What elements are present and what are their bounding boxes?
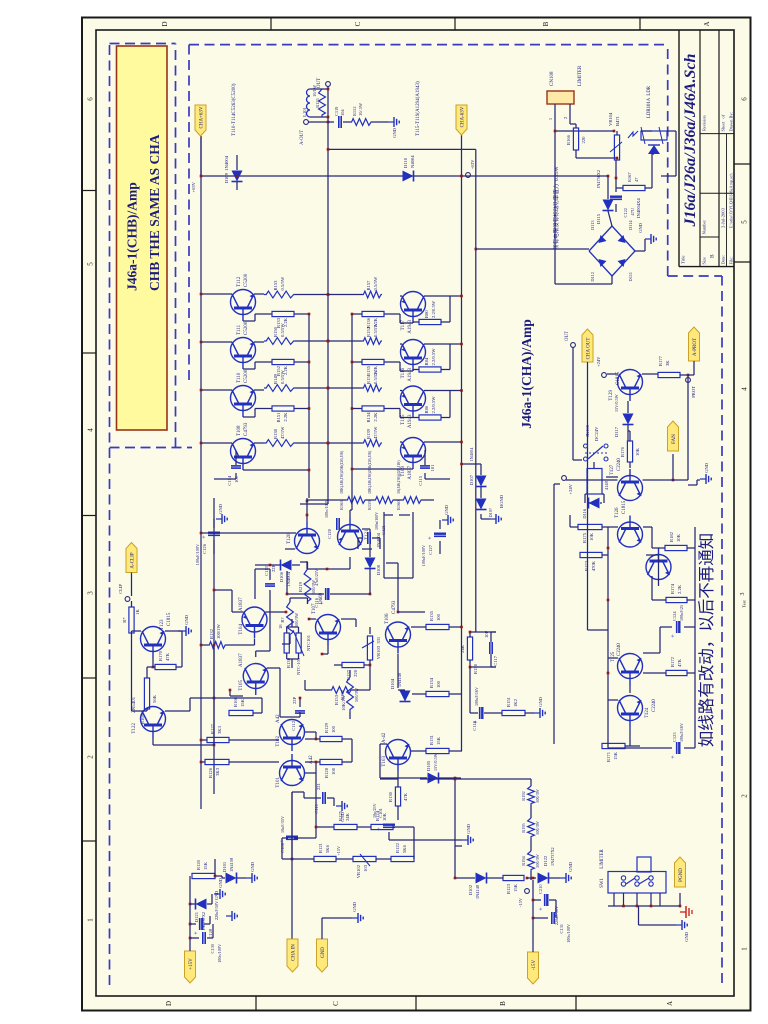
svg-text:R159: R159 bbox=[367, 500, 372, 510]
wire collector T110 bbox=[201, 389, 232, 391]
svg-text:C1815: C1815 bbox=[616, 371, 621, 385]
svg-text:PROT: PROT bbox=[691, 386, 696, 398]
svg-text:2.2K: 2.2K bbox=[373, 365, 378, 375]
bridge rectifier D111-D114 IN4004X4 bbox=[589, 251, 612, 276]
svg-text:2.2K: 2.2K bbox=[677, 584, 682, 594]
wire mid verticals bbox=[190, 697, 262, 699]
wire caps -15V gnd bbox=[549, 899, 556, 901]
capacitor C124 100uF/25V bbox=[676, 621, 678, 633]
svg-text:5: 5 bbox=[741, 220, 749, 224]
svg-text:500/3W: 500/3W bbox=[311, 579, 316, 594]
dashed CHA box notch left edge bbox=[668, 275, 722, 277]
wire base network T115 bbox=[400, 417, 413, 419]
svg-text:所有电限没有标动功率值力 0.25W: 所有电限没有标动功率值力 0.25W bbox=[552, 165, 560, 249]
wire A-PROT bbox=[693, 361, 695, 375]
svg-text:104: 104 bbox=[340, 109, 345, 116]
capacitor C116 47uF/25V bbox=[325, 588, 327, 600]
resistor R137 220 bbox=[342, 662, 364, 667]
resistor R121 5K6 bbox=[314, 856, 336, 861]
resistor R139 47/1W bbox=[362, 440, 382, 447]
wire y455 run bbox=[455, 777, 461, 779]
title block vertical dividers bbox=[700, 236, 719, 238]
svg-text:A1837: A1837 bbox=[408, 466, 413, 480]
svg-text:470K: 470K bbox=[591, 560, 596, 571]
svg-text:R121: R121 bbox=[318, 842, 323, 853]
resistor R130 47K bbox=[395, 787, 400, 806]
wire bias chain bbox=[307, 499, 346, 501]
wire feedback long bbox=[454, 778, 456, 878]
ground C118/R151 bbox=[484, 712, 502, 714]
wire PNP base rail bbox=[351, 313, 353, 498]
svg-text:D: D bbox=[165, 1001, 173, 1006]
resistor R172 47K bbox=[666, 670, 687, 675]
wire base T108 bbox=[243, 469, 309, 471]
resistor R192 500/3W bbox=[528, 786, 535, 805]
svg-text:C122: C122 bbox=[623, 208, 628, 218]
svg-text:-15V: -15V bbox=[518, 897, 523, 907]
svg-text:1K2: 1K2 bbox=[513, 698, 518, 707]
resistor R151b 1K2 bbox=[502, 710, 525, 715]
switch SW1 LIMITER body bbox=[608, 872, 666, 894]
svg-text:D669: D669 bbox=[319, 592, 324, 604]
resistor R127 3K3 bbox=[207, 737, 229, 742]
svg-text:A1837: A1837 bbox=[239, 597, 244, 611]
svg-text:如线路有改动，以后不再通知: 如线路有改动，以后不再通知 bbox=[697, 533, 716, 748]
wire C121 links bbox=[358, 537, 362, 539]
svg-text:D107: D107 bbox=[469, 474, 474, 485]
wire T104/T105 links bbox=[254, 639, 256, 645]
wire bridge left bbox=[611, 276, 613, 284]
wire T121 base to rail bbox=[349, 510, 351, 518]
svg-text:47K: 47K bbox=[403, 792, 408, 801]
transistor T110 C5200 bbox=[231, 386, 256, 411]
svg-text:Title: Title bbox=[681, 255, 686, 264]
svg-text:D112: D112 bbox=[590, 272, 595, 282]
svg-text:GND: GND bbox=[218, 503, 223, 514]
svg-text:500/3W: 500/3W bbox=[294, 612, 299, 627]
svg-text:2.2/0.5W: 2.2/0.5W bbox=[431, 300, 436, 318]
svg-text:R167: R167 bbox=[627, 172, 632, 182]
wire output node bbox=[327, 86, 329, 89]
svg-text:100: 100 bbox=[331, 767, 336, 775]
ground D101 bbox=[237, 877, 246, 879]
wire collector T116 bbox=[424, 343, 462, 345]
wire R192b bbox=[349, 670, 351, 677]
svg-text:+: + bbox=[428, 536, 434, 540]
wire C122 bbox=[615, 204, 617, 212]
svg-text:47K: 47K bbox=[677, 658, 682, 667]
svg-text:103: 103 bbox=[363, 864, 368, 872]
wire input stage verticals bbox=[229, 739, 279, 741]
svg-text:C1815: C1815 bbox=[622, 500, 627, 514]
resistor R169 56K bbox=[144, 678, 149, 709]
svg-text:100uF/16V: 100uF/16V bbox=[679, 723, 684, 742]
diode D122 1N4737X2 bbox=[527, 877, 536, 879]
svg-text:C127: C127 bbox=[428, 544, 433, 555]
dashed CHA box right edge bbox=[189, 44, 668, 46]
wire T107 links bbox=[327, 646, 329, 654]
dashed CHB note box bottom edge bbox=[175, 44, 177, 448]
transistor T105 A1837 bbox=[243, 664, 268, 689]
transistor T122 2N5401 bbox=[141, 707, 166, 732]
svg-text:5: 5 bbox=[87, 262, 95, 266]
svg-text:C5200: C5200 bbox=[244, 369, 249, 383]
wire +24V vertical bbox=[566, 479, 618, 481]
resistor R177 3K bbox=[658, 372, 680, 377]
wire protection block bbox=[607, 527, 609, 748]
wire C115 bbox=[424, 473, 426, 479]
svg-text:C113: C113 bbox=[264, 566, 269, 576]
svg-text:220uF/50V GND: 220uF/50V GND bbox=[214, 891, 219, 920]
wire T129 collector bbox=[607, 373, 618, 375]
resistor R174 2.2K bbox=[666, 597, 687, 602]
transistor T103 A42 bbox=[386, 740, 411, 765]
diode D116 4148 bbox=[589, 498, 600, 509]
wire emitter T109 bbox=[400, 441, 402, 443]
svg-text:T105: T105 bbox=[239, 680, 244, 691]
flag PGND bbox=[675, 857, 686, 887]
transistor T129 C1815 bbox=[618, 370, 643, 395]
svg-text:R136: R136 bbox=[366, 317, 371, 328]
svg-text:T116: T116 bbox=[401, 368, 406, 379]
svg-text:D108: D108 bbox=[376, 564, 381, 575]
wire R80 bbox=[413, 321, 419, 323]
svg-text:R195: R195 bbox=[521, 822, 526, 832]
svg-text:C119: C119 bbox=[334, 106, 339, 116]
svg-text:GND: GND bbox=[444, 504, 449, 515]
wire bias block bbox=[286, 653, 288, 659]
svg-text:R129: R129 bbox=[324, 722, 329, 733]
svg-text:GND: GND bbox=[684, 931, 689, 942]
svg-text:D104: D104 bbox=[390, 678, 395, 689]
svg-text:DC24V: DC24V bbox=[594, 426, 599, 441]
wire D105 bbox=[420, 777, 427, 779]
svg-text:22P: 22P bbox=[271, 564, 276, 572]
transistor T112 C5200 bbox=[231, 290, 256, 315]
wire R166 bbox=[575, 124, 577, 128]
flag CHA-63V bbox=[461, 135, 463, 176]
wire pins down bbox=[555, 130, 614, 132]
svg-text:+63V: +63V bbox=[191, 181, 196, 192]
wire R120/D101 bbox=[215, 875, 222, 877]
wire R132 bbox=[201, 644, 208, 646]
transistor T108 C4793 bbox=[231, 439, 256, 464]
svg-text:+15V: +15V bbox=[189, 958, 194, 970]
svg-text:24K: 24K bbox=[345, 812, 350, 821]
svg-text:T110: T110 bbox=[237, 372, 242, 383]
svg-text:R182: R182 bbox=[669, 531, 674, 542]
svg-text:T123: T123 bbox=[160, 619, 165, 630]
wire collector T112 bbox=[201, 293, 232, 295]
wire feedback from output bbox=[328, 148, 476, 150]
svg-text:R84: R84 bbox=[424, 357, 429, 365]
dashed CHA box notch top edge bbox=[667, 45, 669, 276]
resistor R128 100 bbox=[320, 759, 342, 764]
svg-text:A1837: A1837 bbox=[239, 653, 244, 667]
wire emitter T111 bbox=[254, 341, 264, 343]
svg-text:GND: GND bbox=[250, 861, 255, 872]
title block divider row2/row3 bbox=[718, 30, 720, 267]
svg-text:R122: R122 bbox=[395, 842, 400, 853]
svg-text:R135: R135 bbox=[429, 610, 434, 621]
svg-text:A: A bbox=[703, 21, 711, 26]
resistor R159 18K bbox=[374, 497, 394, 504]
svg-text:10K: 10K bbox=[635, 447, 640, 456]
zone tick marks bbox=[82, 840, 96, 842]
svg-text:A: A bbox=[666, 1001, 674, 1006]
resistor R133 2.2K bbox=[272, 311, 294, 316]
svg-text:+24V: +24V bbox=[596, 356, 601, 367]
svg-text:0.5/5W: 0.5/5W bbox=[373, 276, 378, 290]
ground relay bbox=[697, 479, 700, 481]
svg-text:OUT: OUT bbox=[565, 331, 570, 341]
svg-text:1N4004: 1N4004 bbox=[224, 155, 229, 171]
capacitor C127 100uF/100V bbox=[434, 535, 446, 537]
svg-text:FAN: FAN bbox=[672, 434, 677, 444]
svg-text:-15V: -15V bbox=[532, 959, 537, 970]
svg-text:47/1W: 47/1W bbox=[373, 426, 378, 439]
ground bridge bbox=[645, 238, 651, 240]
svg-text:C120: C120 bbox=[327, 528, 332, 539]
wire collector T108 bbox=[201, 442, 232, 444]
svg-text:T109: T109 bbox=[401, 466, 406, 477]
wire base T109 bbox=[352, 468, 413, 470]
svg-text:C124: C124 bbox=[672, 611, 677, 621]
relay contacts bbox=[584, 457, 588, 461]
svg-text:D109: D109 bbox=[224, 172, 229, 183]
capacitor C122 47U bbox=[610, 198, 622, 200]
svg-text:T115: T115 bbox=[401, 414, 406, 425]
svg-text:GND: GND bbox=[466, 823, 471, 834]
resistor R171 15K bbox=[602, 743, 625, 748]
svg-text:6: 6 bbox=[87, 97, 95, 101]
svg-text:C115: C115 bbox=[418, 475, 423, 485]
svg-text:4: 4 bbox=[741, 387, 749, 391]
title block outline bbox=[678, 30, 680, 267]
svg-text:T120: T120 bbox=[287, 533, 292, 544]
wire bridge bbox=[476, 248, 589, 250]
wire C118 top bbox=[470, 712, 478, 714]
transistor T102 A42 bbox=[280, 720, 305, 745]
flag FAN bbox=[668, 421, 679, 451]
yellow note box CHB bbox=[117, 46, 168, 430]
diode D108 1N4004 bbox=[365, 558, 376, 569]
wire output rail bbox=[327, 89, 329, 504]
svg-text:C123: C123 bbox=[672, 732, 677, 742]
ground C128 bbox=[204, 923, 210, 925]
svg-text:C2240: C2240 bbox=[652, 699, 657, 712]
capacitor C108 10uF/35V bbox=[286, 838, 298, 840]
svg-text:GND: GND bbox=[184, 614, 189, 625]
ground C101 bbox=[388, 832, 390, 840]
svg-text:2.2/0.5W: 2.2/0.5W bbox=[431, 396, 436, 414]
svg-text:R150: R150 bbox=[473, 663, 478, 674]
svg-text:C2240: C2240 bbox=[617, 458, 622, 471]
svg-text:10K: 10K bbox=[589, 532, 594, 541]
svg-text:+: + bbox=[202, 535, 208, 539]
svg-text:A1943: A1943 bbox=[408, 320, 413, 334]
capacitor C131 100n/100V bbox=[533, 917, 548, 919]
svg-text:R173: R173 bbox=[584, 560, 589, 571]
svg-text:Test: Test bbox=[742, 600, 747, 608]
svg-text:GND: GND bbox=[638, 222, 643, 233]
title block divider row1/row2 bbox=[699, 30, 701, 267]
diode D102 1N4148 bbox=[476, 873, 487, 884]
resistor R122 5K6 bbox=[391, 856, 414, 861]
svg-text:2.2K: 2.2K bbox=[373, 412, 378, 422]
resistor R150b 24K bbox=[467, 637, 472, 660]
svg-text:R169: R169 bbox=[140, 713, 145, 724]
wire LDR bbox=[641, 130, 652, 132]
wire out mid to relay bbox=[572, 347, 574, 460]
relay JK100 DC24V bbox=[587, 469, 602, 495]
dashed CHA box top edge bbox=[188, 45, 190, 380]
svg-text:Date:: Date: bbox=[721, 255, 726, 265]
svg-text:18: 18 bbox=[278, 624, 283, 629]
svg-text:2: 2 bbox=[87, 755, 95, 759]
svg-text:T102: T102 bbox=[276, 736, 281, 747]
wire emitter T115 bbox=[400, 390, 402, 392]
svg-text:R134: R134 bbox=[366, 412, 371, 423]
wire collector T117 bbox=[424, 295, 462, 297]
transistor T120 D667 bbox=[295, 529, 320, 554]
resistor R152 2.2K bbox=[272, 359, 294, 364]
dashed CHB note box right edge bbox=[110, 43, 176, 45]
svg-text:T125: T125 bbox=[611, 651, 616, 662]
resistor R152 0.5/5W bbox=[362, 338, 382, 345]
svg-text:10K: 10K bbox=[676, 533, 681, 542]
svg-text:NTC101: NTC101 bbox=[306, 634, 311, 651]
resistor R192b 500/3W bbox=[347, 677, 354, 712]
diode D110 1N4004 bbox=[403, 171, 414, 182]
connector CN108 bbox=[547, 91, 574, 104]
svg-text:15K: 15K bbox=[513, 883, 518, 892]
port -63V bbox=[466, 173, 471, 178]
wire T120 base to rail bbox=[306, 498, 308, 522]
thermistor NTC101 NTC-103 bbox=[296, 633, 301, 653]
svg-text:D102: D102 bbox=[468, 884, 473, 895]
resistor R134 2.2K bbox=[362, 406, 384, 411]
svg-text:T117: T117 bbox=[401, 320, 406, 331]
svg-text:D101: D101 bbox=[222, 861, 227, 872]
wire T120/T121 frame bbox=[383, 512, 385, 578]
svg-text:C: C bbox=[354, 21, 362, 26]
pin 1 bbox=[554, 104, 556, 131]
svg-text:C210: C210 bbox=[538, 884, 543, 894]
flag CHA OUT bbox=[582, 329, 593, 362]
svg-text:47/1W: 47/1W bbox=[280, 426, 285, 439]
svg-text:2.2K: 2.2K bbox=[373, 317, 378, 327]
svg-text:A-CLIP: A-CLIP bbox=[131, 552, 136, 568]
svg-text:2: 2 bbox=[563, 116, 568, 119]
svg-text:Sheet of: Sheet of bbox=[721, 114, 726, 131]
wire emitter T116 bbox=[400, 343, 402, 345]
wire clip area bbox=[131, 601, 133, 607]
svg-text:4148: 4148 bbox=[604, 480, 609, 490]
wire D106 bbox=[270, 564, 280, 566]
resistor R175 10K bbox=[578, 524, 602, 529]
wire collector T109 bbox=[424, 441, 462, 443]
svg-text:2.2K: 2.2K bbox=[283, 412, 288, 422]
wire R191 bbox=[289, 598, 291, 602]
svg-text:T103: T103 bbox=[382, 756, 387, 767]
svg-text:3: 3 bbox=[740, 593, 746, 596]
wire D102 chain bbox=[455, 877, 475, 879]
ground BGND bbox=[480, 514, 482, 519]
svg-text:56K: 56K bbox=[152, 694, 157, 703]
svg-text:22P: 22P bbox=[292, 696, 297, 704]
flag CHA IN bbox=[287, 939, 298, 972]
svg-text:D122: D122 bbox=[543, 855, 548, 866]
svg-text:R120: R120 bbox=[196, 859, 201, 870]
svg-text:J46a-1(CHA)/Amp: J46a-1(CHA)/Amp bbox=[519, 319, 534, 429]
svg-text:A42: A42 bbox=[309, 755, 314, 764]
port -15V bbox=[525, 889, 530, 894]
resistor R195 500/3W bbox=[528, 818, 535, 838]
svg-text:IN4004: IN4004 bbox=[469, 447, 474, 461]
svg-text:GND: GND bbox=[392, 127, 397, 138]
wire collector T115 bbox=[424, 390, 462, 392]
svg-text:R160: R160 bbox=[396, 500, 401, 510]
wire T106 area bbox=[411, 626, 426, 628]
svg-text:5K6: 5K6 bbox=[402, 844, 407, 853]
svg-text:R123: R123 bbox=[506, 883, 511, 894]
svg-text:R155: R155 bbox=[315, 97, 320, 107]
diode D105 15V/0.5W bbox=[428, 773, 439, 784]
ground C111 bbox=[327, 797, 334, 799]
svg-text:R151: R151 bbox=[276, 412, 281, 423]
svg-text:100uF/25: 100uF/25 bbox=[679, 605, 684, 621]
svg-text:IN4004X4: IN4004X4 bbox=[636, 198, 641, 218]
resistor R149 0.5/5W bbox=[264, 385, 295, 392]
svg-text:100uF/16V: 100uF/16V bbox=[474, 687, 479, 706]
diode D106 1N4004 bbox=[281, 560, 292, 571]
svg-text:GND: GND bbox=[218, 877, 223, 888]
svg-text:15V/0.5W: 15V/0.5W bbox=[433, 753, 438, 771]
wire center to bridge bbox=[560, 175, 608, 177]
svg-text:3K: 3K bbox=[665, 360, 670, 366]
svg-text:R?: R? bbox=[280, 617, 285, 622]
svg-text:500/3W: 500/3W bbox=[535, 854, 540, 868]
wire secondary drive rail bbox=[213, 498, 215, 794]
resistor R155 10/1W bbox=[319, 89, 326, 117]
wire R150/C117 loop bbox=[469, 660, 471, 667]
svg-text:R132: R132 bbox=[209, 628, 214, 639]
resistor R134b 100 bbox=[426, 691, 449, 696]
svg-text:GND: GND bbox=[568, 861, 573, 872]
svg-text:CN108: CN108 bbox=[550, 71, 555, 86]
wire input node bbox=[291, 792, 293, 939]
svg-text:10K: 10K bbox=[382, 812, 387, 821]
svg-text:GND: GND bbox=[352, 901, 357, 912]
transistor T111 C5200 bbox=[231, 338, 256, 363]
svg-text:+15V: +15V bbox=[336, 846, 341, 856]
resistor R123 15K bbox=[503, 875, 524, 880]
wire T101 emitter run bbox=[292, 791, 304, 793]
svg-text:R192: R192 bbox=[340, 689, 345, 700]
resistor R120 15K bbox=[192, 873, 215, 878]
wire R175 top bbox=[570, 526, 578, 528]
svg-text:1N4108: 1N4108 bbox=[229, 857, 234, 872]
svg-text:D116: D116 bbox=[582, 508, 587, 518]
resistor R* 1K bbox=[129, 607, 134, 633]
wire R84 bbox=[413, 369, 419, 371]
svg-text:2.2K: 2.2K bbox=[283, 317, 288, 327]
svg-text:D115: D115 bbox=[596, 213, 601, 224]
pin 2 bbox=[569, 104, 571, 124]
svg-text:2: 2 bbox=[741, 794, 749, 798]
resistor R170 47K bbox=[155, 664, 176, 669]
